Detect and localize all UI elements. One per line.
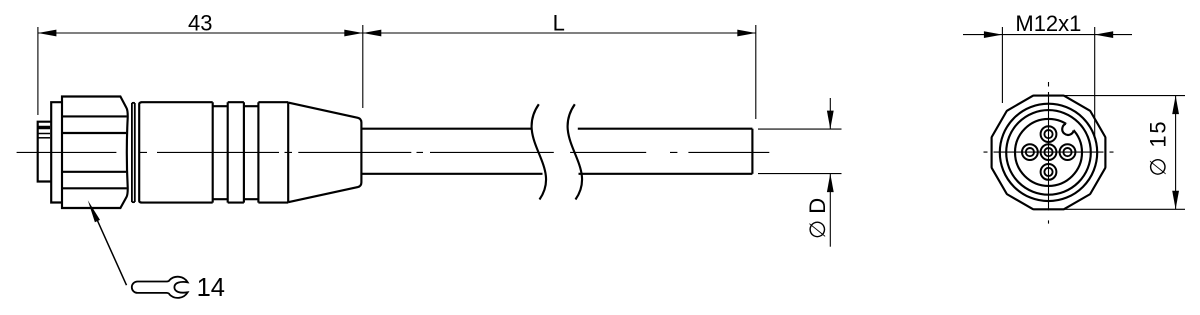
pin right — [1060, 144, 1076, 160]
dimension 43/L shared extension line — [362, 25, 364, 108]
dimension L arrow right — [737, 30, 756, 37]
dimension 43 arrow right — [344, 30, 363, 37]
svg-text:∅ 15: ∅ 15 — [1146, 120, 1171, 177]
dia D dimension line bottom — [829, 174, 831, 247]
wrench symbol — [132, 277, 188, 298]
groove 1 floor top — [213, 105, 228, 107]
svg-text:M12x1: M12x1 — [1015, 11, 1081, 36]
cable bottom line segment 2 — [579, 173, 753, 175]
keying notch arc — [1062, 124, 1073, 135]
dia 15 extension line top — [1053, 95, 1185, 97]
insert tube thread line 2 — [38, 133, 50, 135]
groove 2 floor bottom — [244, 198, 259, 200]
pin center — [1041, 144, 1057, 160]
insert tube thread line thick — [38, 126, 50, 130]
svg-text:∅ D: ∅ D — [805, 198, 830, 239]
nut facet line 2 — [62, 132, 126, 134]
nut facet line 4 — [62, 187, 127, 189]
leader arrow to nut — [92, 209, 127, 286]
cable top line segment 1 — [362, 128, 532, 130]
strain relief taper — [288, 102, 361, 202]
leader arrowhead — [88, 200, 100, 222]
groove edge line 4 — [257, 102, 259, 202]
front view horizontal centerline — [984, 151, 1114, 153]
body outline — [139, 102, 288, 202]
svg-text:14: 14 — [197, 274, 225, 302]
insert tube thread line 3 — [38, 137, 50, 139]
dia 15 extension line bottom — [1059, 208, 1185, 210]
dia D arrow top — [827, 111, 834, 130]
pin bottom — [1041, 164, 1057, 180]
cable top line segment 2 — [578, 128, 753, 130]
washer behind nut — [132, 103, 135, 202]
groove edge line 3 — [243, 102, 245, 202]
front view knurl circle outer — [1000, 104, 1097, 201]
coupling nut outline — [62, 97, 128, 209]
groove edge line 2 — [227, 102, 229, 202]
nut facet line 3 — [62, 171, 126, 173]
dia D arrow bottom — [827, 174, 834, 193]
groove 1 floor bottom — [213, 198, 228, 200]
dia D extension line bottom — [758, 173, 842, 175]
dimension M12x1 extension right — [1094, 27, 1096, 136]
nut facet line 1 — [62, 115, 127, 117]
cable bottom line segment 1 — [362, 173, 543, 175]
dimension 43 line — [38, 32, 363, 34]
front view insert circle — [1015, 119, 1082, 186]
cable end face — [751, 129, 753, 174]
front view knurl circle inner — [1006, 110, 1091, 195]
groove edge line 1 — [212, 102, 214, 202]
connector insert tube — [38, 122, 51, 182]
dimension L extension line right — [755, 25, 757, 119]
dimension 43 extension line left — [37, 27, 39, 115]
dia 15 arrow top — [1172, 96, 1179, 115]
dia D extension line top — [758, 128, 842, 130]
svg-text:L: L — [553, 10, 565, 35]
centerline side view — [17, 151, 770, 153]
cable break curve left — [532, 104, 546, 199]
keying notch erase — [1062, 123, 1074, 135]
front view 12-gon nut outline — [992, 96, 1106, 210]
dia 15 arrow bottom — [1172, 191, 1179, 210]
M12x1 arrow right — [1095, 31, 1114, 38]
pin left — [1022, 144, 1038, 160]
dia 15 dimension line — [1175, 96, 1177, 210]
dimension 43 arrow left — [38, 30, 57, 37]
cable break curve right — [568, 104, 582, 199]
pin top — [1041, 126, 1057, 142]
M12x1 arrow left — [984, 31, 1003, 38]
groove 2 floor top — [244, 105, 259, 107]
dimension M12x1 extension left — [1001, 27, 1003, 103]
dimension M12x1 line — [963, 34, 1132, 36]
dimension L arrow left — [363, 30, 382, 37]
dimension L line — [363, 32, 756, 34]
washer front face — [51, 102, 62, 202]
front view vertical centerline — [1048, 82, 1050, 224]
dia D dimension line top — [829, 98, 831, 129]
svg-text:43: 43 — [188, 10, 212, 35]
